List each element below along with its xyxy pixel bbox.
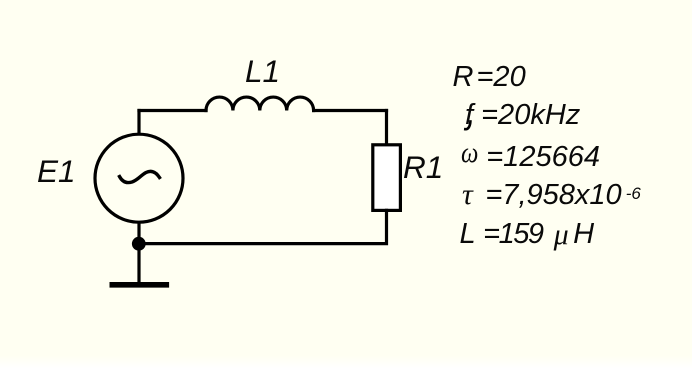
value R — [453, 63, 526, 92]
ground — [112, 282, 166, 288]
wire: top rail right segment — [314, 109, 387, 112]
sine symbol inside source — [120, 171, 160, 182]
white strip at bottom of page — [0, 356, 692, 384]
label E1 — [37, 156, 76, 188]
wire: stem from source bottom through junction to ground — [137, 224, 140, 283]
resistor R1 body — [373, 145, 401, 211]
label L1 — [245, 56, 280, 88]
wire: right vertical into resistor — [385, 111, 388, 147]
wire: stub from top of source up to top rail — [137, 111, 140, 134]
inductor L1 — [206, 97, 314, 110]
descender tail for letter f in value line — [465, 122, 470, 130]
wire: top rail left segment — [139, 109, 206, 112]
value omega — [461, 142, 600, 172]
label R1 — [403, 152, 443, 184]
value L — [460, 219, 595, 249]
wire: from resistor bottom down and left along bottom rail — [139, 210, 387, 243]
value f — [465, 101, 580, 130]
node junction dot — [132, 237, 146, 251]
voltage source E1 circle — [95, 134, 183, 222]
value tau — [462, 180, 641, 210]
